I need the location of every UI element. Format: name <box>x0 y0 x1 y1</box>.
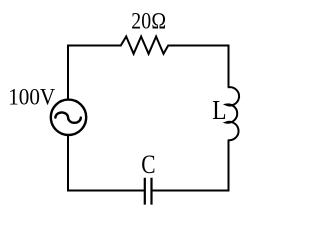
svg-text:C: C <box>141 149 155 179</box>
svg-text:20Ω: 20Ω <box>131 9 166 34</box>
svg-text:100V: 100V <box>8 84 55 109</box>
svg-text:L: L <box>212 94 226 125</box>
